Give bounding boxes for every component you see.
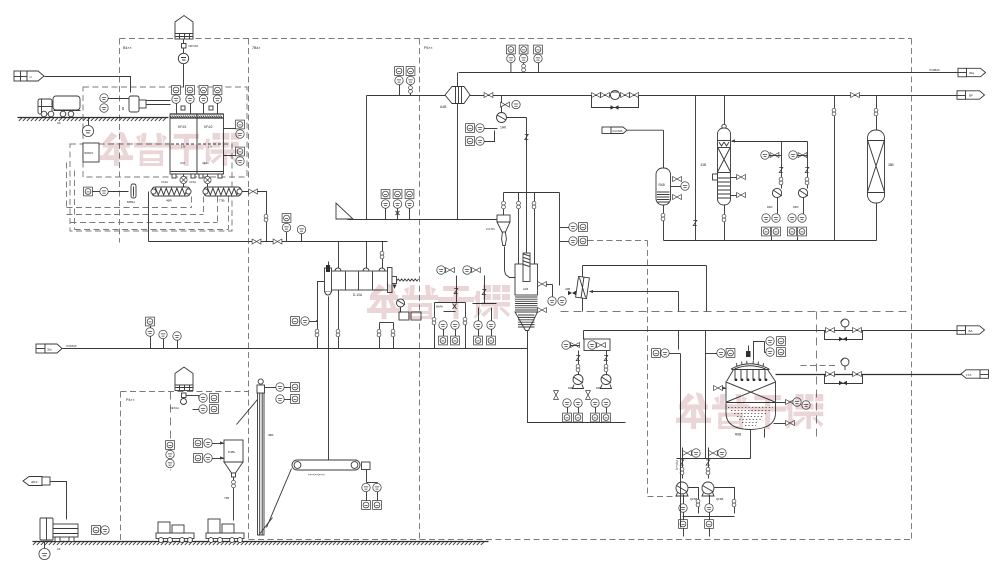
svg-text:#4R: #4R: [793, 205, 799, 209]
vibrating feeder box: [562, 339, 610, 351]
svg-text:××: ××: [29, 75, 33, 79]
svg-text:2×(1+1): 2×(1+1): [675, 460, 679, 470]
svg-text:KF4/1: KF4/1: [178, 125, 187, 129]
air heater A4B: [440, 87, 470, 110]
dryer top risers to L3: [339, 242, 384, 269]
instrument pair near dryer feed: [291, 317, 318, 326]
svg-text:B4AK: B4AK: [436, 305, 443, 309]
svg-text:QF6B: QF6B: [716, 497, 723, 501]
svg-text:××××××(×××): ××××××(×××): [308, 473, 325, 477]
svg-text:KF4/2: KF4/2: [204, 125, 213, 129]
tank inlet valves left: [714, 386, 727, 391]
mill feeder unit: [121, 96, 171, 112]
svg-text:17A: 17A: [966, 373, 971, 377]
riser x834 L2 to collection line: [832, 96, 836, 241]
conveyor end instruments: [362, 470, 382, 510]
svg-text:44B: 44B: [565, 287, 570, 291]
svg-text:P4××: P4××: [126, 398, 135, 402]
bucket elevator 4BK: [237, 379, 274, 536]
svg-text:B4××: B4××: [123, 46, 132, 50]
discharge pump group right: [586, 351, 612, 422]
elevator top instruments: [265, 383, 300, 404]
paddle dryer D-10A: [325, 262, 419, 298]
discharge pump group left: [554, 351, 584, 423]
svg-text:B4: B4: [121, 107, 125, 111]
sampling cluster B4AK: [432, 266, 467, 349]
feed line into HX: [583, 241, 707, 312]
inlet flag KACA06: [602, 127, 664, 169]
svg-text:?4B: ?4B: [224, 496, 229, 500]
inclined chute conveyor to elevator: [267, 469, 292, 528]
svg-text:46F2: 46F2: [31, 480, 38, 484]
outlet flag X338AF 30a: [929, 68, 985, 77]
weigh instrument below truck: [39, 542, 61, 560]
screw conveyor 2: [203, 187, 242, 203]
tower outlet down: [528, 331, 626, 423]
svg-text:P5××: P5××: [424, 46, 433, 50]
spray arm line into 43B: [731, 139, 808, 142]
svg-text:BF: BF: [969, 94, 973, 98]
svg-text:43B: 43B: [700, 163, 706, 167]
feed box B1B4P1: [83, 143, 99, 162]
instruments right of bins: [224, 120, 245, 165]
exhaust pipe L4 y219: [348, 219, 498, 221]
roofed hopper H1 top-left: [175, 16, 198, 88]
svg-text:30a: 30a: [47, 347, 52, 351]
instruments on downcomer x559: [560, 223, 588, 246]
hopper instruments: [187, 394, 219, 414]
cyclone 2x1T9x: [486, 215, 515, 278]
svg-text:AF: AF: [57, 547, 61, 551]
tanker truck top-left: [38, 96, 81, 125]
collection line y240.5: [664, 240, 877, 242]
valve on L2 right: [851, 93, 860, 98]
area P4 dashed box: [121, 392, 249, 542]
inlet flag 17A: [961, 370, 989, 379]
instrument and pump group right of 43B: [761, 142, 809, 241]
dryer drive motor cluster: [377, 299, 421, 349]
flexible connector B4B4A: [127, 184, 136, 204]
svg-text:1AK: 1AK: [500, 126, 507, 130]
tank side nozzles right: [774, 398, 811, 426]
svg-text:#4R: #4R: [767, 205, 773, 209]
svg-text:30a: 30a: [969, 71, 974, 75]
tank left instruments: [652, 349, 735, 358]
svg-text:BA: BA: [969, 329, 973, 333]
feeder instruments below: [84, 187, 129, 196]
tower gauges right: [538, 282, 567, 313]
svg-text:KF4A: KF4A: [190, 180, 197, 184]
svg-text:B4B4A: B4B4A: [127, 200, 135, 204]
svg-text:P4BL: P4BL: [228, 450, 236, 454]
dashed signal lines right area: [561, 241, 912, 497]
main pipe L6 y330 to flag BA: [584, 330, 958, 332]
svg-text:X338AF: X338AF: [929, 68, 940, 72]
instruments on L5 left: [146, 328, 181, 349]
ground line top-left: [18, 117, 169, 119]
main pipe L7 y374 from flag 17A: [776, 374, 962, 376]
svg-text:T3B: T3B: [219, 199, 225, 203]
lines down from tank: [677, 331, 765, 459]
watermark overlay instances: [100, 131, 823, 429]
bypass loop with pump and check valve on L2: [592, 90, 639, 109]
svg-text:#4B: #4B: [596, 386, 601, 390]
outlet flag BA: [957, 326, 985, 335]
heat exchanger 44B inclined: [565, 276, 678, 311]
flatbed truck 1 bottom: [34, 518, 79, 544]
roofed hopper P4: [170, 367, 193, 410]
instrument pair right of truck: [92, 526, 110, 535]
tank top piping to gauges: [754, 337, 786, 361]
pipe corner left of heater: [366, 96, 368, 220]
mixer feed instruments: [194, 439, 225, 463]
belt conveyor: [292, 460, 370, 477]
inlet flag X318AF left: [36, 344, 77, 353]
exhaust chute triangle: [336, 203, 353, 219]
svg-text:A4B: A4B: [440, 105, 447, 109]
control valve station on L7: [825, 358, 863, 385]
svg-text:7B4×: 7B4×: [252, 46, 261, 50]
rotary valve under bin 1: [162, 175, 188, 188]
main pipe L2 y95: [367, 95, 958, 97]
dryer drain lines: [336, 291, 340, 349]
control valve station on L6: [825, 319, 863, 341]
valve on L2 after heater: [484, 93, 493, 98]
svg-text:AF: AF: [57, 121, 61, 125]
svg-text:38B: 38B: [888, 163, 894, 167]
svg-text:KF4A: KF4A: [162, 180, 169, 184]
spray drying tower A04: [515, 253, 538, 331]
tank discharge pumps QF6B: [676, 448, 736, 537]
svg-text:4BK: 4BK: [268, 433, 274, 437]
discharge line screw2 to L3: [243, 189, 268, 242]
main pipe L5 y348.5: [63, 348, 528, 350]
outlet flag BF: [957, 91, 985, 100]
skid truck 3: [206, 519, 244, 542]
svg-text:R4B: R4B: [659, 183, 665, 187]
agitated tank R6B: [726, 346, 776, 437]
riser heater to L1: [457, 73, 459, 87]
dryer feed elbow to L5: [315, 282, 324, 349]
mixer bin P4BL: [224, 440, 243, 521]
area boundary dashed lines: [120, 39, 912, 542]
bag filter bins KF4-1 KF4-2: [170, 114, 224, 178]
packed column 38B: [868, 96, 894, 241]
svg-text:D-10A: D-10A: [353, 293, 363, 297]
transmitters above L2 left: [395, 67, 415, 96]
tower feed header: [502, 193, 560, 286]
skid truck 2: [156, 522, 194, 542]
riser heater down to L4: [457, 104, 459, 220]
instrument below ground (weigh cell): [82, 118, 93, 137]
svg-text:2×1T9×: 2×1T9×: [486, 227, 495, 231]
screw conveyor 1: [151, 187, 191, 203]
svg-text:A04: A04: [523, 287, 529, 291]
bin top instruments (4 columns): [172, 86, 222, 115]
svg-text:X318AF: X318AF: [66, 344, 77, 348]
main pipe L1 y72.5 to flag X338AF: [459, 72, 959, 74]
vessel R4B: [656, 168, 689, 241]
svg-text:#4B: #4B: [568, 386, 573, 390]
instrument group on L1 (three transmitters): [507, 45, 543, 72]
instruments above L3: [282, 214, 306, 242]
svg-text:KACA06: KACA06: [613, 129, 624, 133]
svg-text:R6B: R6B: [735, 433, 741, 437]
packed column 43B: [700, 96, 745, 241]
svg-text:4BR: 4BR: [166, 199, 173, 203]
gauges left of feeder: [100, 94, 130, 112]
pump 1AK with gauges: [466, 96, 521, 146]
inner dashed enclosures feed area B4: [67, 87, 248, 231]
inlet flag top-left: [14, 71, 131, 93]
instrument grid above dryer: [381, 190, 414, 220]
riser x695 with break: [693, 96, 697, 241]
hot air duct to tower: [507, 118, 529, 254]
sampling cluster 2: [463, 266, 497, 345]
rotary valve under bin 2: [190, 175, 212, 188]
svg-text:B1B4P1: B1B4P1: [85, 152, 94, 155]
standby note vertical text: [675, 354, 681, 528]
ground line bottom: [33, 541, 489, 543]
gauge trio lower mid-left: [146, 317, 155, 328]
instrument stack on dashed line: [166, 441, 175, 468]
inlet flag 46F2 bottom-left: [23, 477, 67, 520]
dryer discharge to belt conveyor: [328, 297, 330, 461]
svg-text:KETAA: KETAA: [170, 406, 179, 410]
svg-text:N6T/A6: N6T/A6: [189, 44, 199, 48]
pipe L3 y241.5: [149, 192, 388, 245]
